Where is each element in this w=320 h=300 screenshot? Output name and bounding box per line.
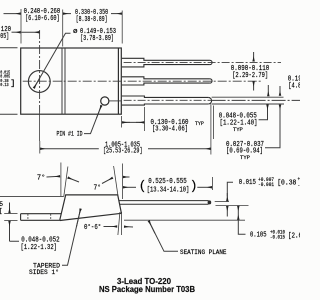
lead 3 lower centerline extension bbox=[212, 99, 300, 101]
svg-text:SEATING PLANE: SEATING PLANE bbox=[180, 249, 227, 257]
lead 2 wide part bbox=[122, 77, 210, 85]
body inner step line 2 bbox=[64, 48, 66, 114]
text dim 0.525-0.555 with parens bbox=[139, 178, 198, 194]
dim 0.048-0.055 down arrow a bbox=[267, 85, 269, 96]
left 7 deg slant ext line bbox=[64, 167, 68, 197]
dim 0.130-0.160 line bbox=[122, 121, 144, 123]
svg-text:05]: 05] bbox=[0, 33, 9, 41]
lead 3 wide part bbox=[122, 96, 209, 105]
text left tolerance stack clipped bbox=[0, 69, 15, 88]
svg-text:[8.38-8.89]: [8.38-8.89] bbox=[76, 16, 108, 24]
lead 3 bottom edge extension bbox=[212, 103, 284, 105]
left down arrow bbox=[9, 203, 11, 213]
7 deg label 2 arrow bbox=[102, 178, 113, 184]
dim 1.005-1.035 line left bbox=[40, 148, 99, 150]
dim 0.525 right ext line bbox=[211, 177, 213, 190]
svg-text:[: [ bbox=[0, 208, 2, 215]
svg-text:ø: ø bbox=[73, 28, 78, 36]
body outline (front view) bbox=[21, 48, 122, 114]
svg-text:-0.015: -0.015 bbox=[270, 235, 285, 241]
left up arrow with leader to 0.048-0.052 bbox=[10, 226, 20, 241]
tab hidden hole line 1 bbox=[27, 214, 29, 220]
svg-text:[2.29-2.79]: [2.29-2.79] bbox=[232, 72, 268, 80]
svg-text:[25.53-26.29]: [25.53-26.29] bbox=[103, 148, 143, 156]
0-6 deg vertical line bbox=[121, 212, 123, 235]
svg-text:7°: 7° bbox=[94, 183, 102, 192]
0-6 deg right arrow bbox=[124, 226, 133, 228]
svg-text:PIN #1 ID: PIN #1 ID bbox=[57, 130, 83, 137]
text left clipped marks bbox=[0, 201, 3, 215]
right 7 deg vertical ref line bbox=[121, 164, 123, 200]
svg-text:TYP: TYP bbox=[233, 126, 244, 133]
lead top ext line bbox=[215, 201, 229, 203]
text dim 0.027-0.037 bbox=[226, 141, 264, 161]
right 7 deg slant ext line bbox=[114, 166, 118, 195]
0-6 deg left arrow bbox=[104, 226, 118, 228]
left tab top ext bbox=[4, 213, 17, 215]
lead bottom ext line bbox=[216, 205, 249, 207]
svg-text:-0.001: -0.001 bbox=[258, 182, 274, 188]
side view lead bbox=[119, 201, 209, 205]
dim 0.330-0.350 right arrow bbox=[111, 13, 122, 15]
svg-text:-0.: -0. bbox=[298, 182, 301, 188]
side view body outline bbox=[60, 195, 122, 221]
svg-text:0°-6°: 0°-6° bbox=[84, 223, 101, 232]
text dim 0.048-0.052 bbox=[21, 236, 60, 252]
svg-text:TYP: TYP bbox=[195, 120, 205, 127]
0-6 deg slant line bbox=[118, 212, 120, 235]
lead 2 cap bbox=[210, 79, 212, 83]
dim 0.130-0.160 left ext bbox=[121, 116, 123, 128]
svg-text:): ) bbox=[190, 179, 198, 194]
dim 0.048-0.055 up arrow with leader bbox=[259, 108, 268, 120]
svg-text:[6.10-6.60]: [6.10-6.60] bbox=[25, 15, 60, 23]
dim 0.015 up arrow bbox=[226, 206, 228, 216]
text dim 0.240-0.260 bbox=[24, 8, 61, 23]
text dim 0.090-0.110 bbox=[231, 65, 269, 80]
text dim 0.130-0.160 bbox=[151, 119, 205, 133]
text dim 0.105 bbox=[250, 230, 302, 241]
svg-text:0.015: 0.015 bbox=[239, 179, 256, 187]
left side body top ext line bbox=[0, 195, 64, 197]
text dim 0.330-0.350 bbox=[75, 9, 108, 24]
svg-text:[0.38: [0.38 bbox=[277, 180, 296, 188]
dim 0.240-0.260 left arrow bbox=[4, 13, 21, 15]
7 deg label 1 arrow bbox=[47, 175, 60, 178]
dim 0.048-0.055 down arrow b bbox=[279, 86, 281, 96]
svg-text:0.525-0.555: 0.525-0.555 bbox=[148, 178, 186, 186]
text hole diameter bbox=[73, 28, 116, 43]
lead 1 centerline bbox=[124, 61, 281, 63]
horizontal centerline (body + lead 2) bbox=[23, 80, 262, 82]
svg-text:[13.34-14.10]: [13.34-14.10] bbox=[147, 186, 190, 194]
svg-text:SIDES 1°: SIDES 1° bbox=[29, 268, 59, 277]
svg-text:NS Package Number T03B: NS Package Number T03B bbox=[99, 284, 195, 294]
top left corner stub line bbox=[0, 47, 18, 49]
svg-text:0.13: 0.13 bbox=[0, 82, 9, 88]
dim 1.005-1.035 right ext bbox=[210, 103, 212, 155]
seating plane line bbox=[124, 219, 245, 221]
dim 0.105 double arrow bbox=[237, 206, 239, 212]
text dim 0.100-0.120 clipped bbox=[0, 26, 11, 41]
svg-text:(: ( bbox=[139, 179, 147, 194]
svg-text:7°: 7° bbox=[37, 174, 46, 183]
dim 0.525 right arrow bbox=[197, 186, 212, 188]
body right edge inner line bbox=[117, 48, 119, 114]
dim arrow pointing left at middle extension bbox=[63, 13, 71, 15]
lead 3 centerline bbox=[124, 99, 211, 101]
pin 1 centerline connector bbox=[109, 100, 122, 102]
dim extension line right bbox=[121, 11, 123, 44]
svg-text:[2.6: [2.6 bbox=[288, 232, 300, 240]
mounting hole bbox=[28, 71, 50, 93]
dim 1.005-1.035 line right bbox=[148, 148, 210, 150]
dim 0.100-0.120 line with arrows bbox=[12, 31, 21, 33]
lead 1 wide part bbox=[122, 58, 210, 67]
lead 3 top edge extension bbox=[212, 96, 284, 98]
svg-text:]: ] bbox=[10, 79, 15, 89]
lead 1 cap bbox=[210, 60, 212, 64]
text dim 0.015 with tolerances bbox=[239, 177, 306, 189]
side view tab outline bbox=[21, 214, 62, 221]
left 7 deg vertical ref line bbox=[60, 163, 62, 197]
dim 1.005-1.035 left ext (hole centerline) bbox=[39, 141, 41, 154]
dim extension line middle bbox=[62, 10, 64, 47]
dim 0.130-0.160 right ext bbox=[144, 107, 146, 131]
dim 0.525 left arrow bbox=[123, 186, 136, 188]
hole vertical centerline bbox=[39, 30, 41, 112]
dim 0.015 leader and down arrow bbox=[227, 182, 233, 196]
svg-text:[4.8: [4.8 bbox=[288, 82, 300, 90]
svg-text:TYP: TYP bbox=[240, 154, 251, 161]
pin 1 leader bbox=[84, 106, 101, 134]
text tapered sides bbox=[29, 262, 60, 277]
hole diameter leader bbox=[35, 33, 71, 86]
svg-text:[1.22-1.32]: [1.22-1.32] bbox=[21, 244, 58, 252]
second ext near lead tip bbox=[212, 106, 214, 140]
dim 0.240-0.260 extension line left bbox=[20, 9, 22, 44]
tapered sides leader bbox=[62, 209, 81, 265]
left tab bottom ext bbox=[4, 219, 17, 221]
dim 0.090-0.110 down arrow bbox=[253, 52, 255, 61]
dim 0.090-0.110 up arrow bbox=[253, 81, 255, 90]
text dim 0.048-0.055 bbox=[219, 113, 258, 133]
side view lead tip cap bbox=[208, 200, 212, 204]
tab hidden hole line 2 bbox=[50, 214, 52, 220]
svg-text:[3.30-4.06]: [3.30-4.06] bbox=[152, 125, 188, 133]
bottom left stub line bbox=[0, 113, 18, 115]
right 7 deg opposing arrow bbox=[123, 176, 129, 178]
text dim 0.19 clipped bbox=[288, 76, 302, 91]
text dim 1.005-1.035 bbox=[103, 142, 143, 156]
dim 0.105 leader bbox=[238, 220, 245, 235]
lead 3 cap bbox=[208, 97, 211, 104]
body inner step line 1 bbox=[61, 48, 63, 114]
svg-text:0.105: 0.105 bbox=[250, 232, 267, 240]
svg-text:[3.78-3.89]: [3.78-3.89] bbox=[80, 35, 114, 43]
7 deg opposing arrow 1 bbox=[68, 178, 79, 182]
dim 0.027-0.037 up arrow with leader bbox=[265, 108, 280, 148]
seating plane leader bbox=[149, 221, 178, 251]
pin 1 id circle bbox=[101, 97, 109, 105]
